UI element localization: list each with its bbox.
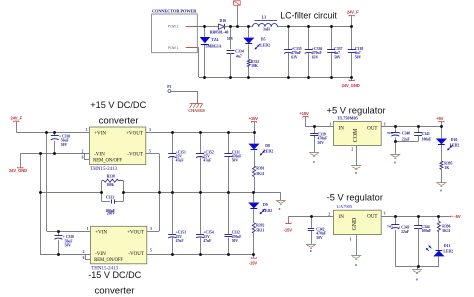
- svg-text:+5V: +5V: [436, 116, 443, 121]
- svg-text:10K: 10K: [251, 64, 258, 68]
- svg-text:1: 1: [350, 237, 352, 241]
- svg-text:63V: 63V: [291, 55, 298, 59]
- svg-text:5: 5: [149, 150, 151, 154]
- svg-text:D11: D11: [444, 244, 450, 248]
- svg-text:100k: 100k: [106, 183, 115, 187]
- svg-text:D5: D5: [261, 38, 266, 42]
- svg-text:POW 1: POW 1: [168, 46, 179, 50]
- svg-text:+VOUT: +VOUT: [126, 130, 144, 136]
- svg-text:+15V: +15V: [249, 116, 259, 121]
- svg-text:-VOUT: -VOUT: [127, 152, 144, 158]
- svg-text:+5 V regulator: +5 V regulator: [327, 104, 386, 115]
- svg-text:5K11: 5K11: [442, 229, 450, 233]
- svg-text:R395: R395: [444, 161, 452, 165]
- svg-text:24V_F: 24V_F: [10, 116, 22, 121]
- svg-text:2: 2: [351, 148, 353, 152]
- svg-text:-15V: -15V: [284, 227, 293, 232]
- svg-text:+VOUT: +VOUT: [127, 230, 145, 236]
- svg-text:1: 1: [87, 227, 89, 231]
- svg-text:-5V: -5V: [454, 214, 460, 219]
- svg-text:5K11: 5K11: [256, 172, 264, 176]
- svg-text:0: 0: [279, 207, 281, 211]
- svg-text:OUT: OUT: [367, 213, 378, 219]
- svg-text:L3: L3: [262, 16, 267, 20]
- svg-text:R330: R330: [107, 175, 115, 179]
- svg-text:+ C343: + C343: [398, 225, 409, 229]
- svg-text:R392: R392: [256, 223, 264, 227]
- svg-text:47uF: 47uF: [176, 239, 185, 243]
- svg-text:0: 0: [310, 249, 312, 253]
- svg-text:C334: C334: [235, 49, 244, 53]
- svg-text:+VIN: +VIN: [95, 230, 107, 236]
- svg-text:REM_ON/OFF: REM_ON/OFF: [94, 258, 123, 263]
- svg-text:D9: D9: [263, 203, 268, 207]
- svg-text:THN15-2413: THN15-2413: [90, 167, 117, 172]
- svg-text:0: 0: [394, 160, 396, 164]
- svg-text:LC-filter circuit: LC-filter circuit: [280, 11, 337, 21]
- svg-text:LED2: LED2: [450, 143, 460, 147]
- svg-text:100nF: 100nF: [422, 137, 433, 141]
- svg-text:50V: 50V: [318, 141, 325, 145]
- svg-text:0: 0: [355, 263, 357, 267]
- svg-text:-5 V regulator: -5 V regulator: [327, 193, 383, 203]
- svg-text:-VIN: -VIN: [94, 152, 105, 158]
- svg-text:TZ4: TZ4: [211, 38, 218, 42]
- svg-text:COM: COM: [353, 128, 359, 142]
- svg-text:50V: 50V: [316, 236, 323, 240]
- svg-text:UA7905: UA7905: [337, 204, 353, 209]
- svg-text:47uF: 47uF: [203, 239, 212, 243]
- svg-text:50V: 50V: [334, 55, 341, 59]
- svg-text:24V_GND: 24V_GND: [9, 168, 27, 173]
- svg-text:C333: C333: [106, 196, 114, 200]
- svg-text:63V: 63V: [312, 55, 319, 59]
- svg-text:OUT: OUT: [367, 125, 378, 131]
- svg-text:3: 3: [384, 123, 386, 127]
- svg-text:3: 3: [384, 212, 386, 216]
- svg-text:R391: R391: [256, 167, 264, 171]
- svg-text:22uF: 22uF: [402, 138, 411, 142]
- svg-text:5K11: 5K11: [256, 229, 264, 233]
- svg-text:0: 0: [355, 171, 357, 175]
- svg-text:3: 3: [150, 227, 152, 231]
- svg-text:2: 2: [328, 212, 330, 216]
- svg-text:50V: 50V: [61, 143, 68, 147]
- svg-text:D16: D16: [220, 19, 227, 23]
- svg-text:50V: 50V: [232, 239, 239, 243]
- svg-text:TL750M05: TL750M05: [337, 116, 358, 121]
- svg-text:LED2: LED2: [262, 209, 272, 213]
- svg-text:-VIN: -VIN: [95, 251, 106, 257]
- svg-text:-VOUT: -VOUT: [128, 251, 145, 257]
- svg-text:+15V: +15V: [299, 111, 309, 116]
- svg-text:IN: IN: [339, 125, 345, 131]
- svg-text:RB050L-40: RB050L-40: [210, 31, 229, 35]
- svg-text:1: 1: [86, 128, 88, 132]
- svg-text:3uH: 3uH: [263, 28, 270, 32]
- svg-text:1K: 1K: [445, 166, 450, 170]
- svg-text:50V: 50V: [65, 244, 72, 248]
- svg-text:6: 6: [83, 256, 85, 260]
- svg-text:R396: R396: [442, 224, 450, 228]
- svg-text:SMBG3A: SMBG3A: [206, 44, 222, 48]
- svg-text:2: 2: [82, 149, 84, 153]
- svg-text:D10: D10: [451, 138, 458, 142]
- svg-text:3: 3: [149, 128, 151, 132]
- svg-text:CONNECTOR POWER: CONNECTOR POWER: [152, 8, 197, 13]
- svg-text:GND: GND: [352, 218, 358, 231]
- svg-text:5: 5: [150, 249, 152, 253]
- svg-text:+ C340: + C340: [399, 131, 410, 135]
- svg-text:50V: 50V: [355, 55, 362, 59]
- svg-text:converter: converter: [95, 286, 136, 297]
- svg-text:0: 0: [416, 277, 418, 281]
- svg-text:-15 V DC/DC: -15 V DC/DC: [88, 270, 141, 280]
- svg-text:50V: 50V: [232, 159, 239, 163]
- svg-text:47uF: 47uF: [176, 159, 185, 163]
- svg-text:6: 6: [82, 155, 84, 159]
- svg-text:200V: 200V: [107, 212, 116, 216]
- svg-text:+VIN: +VIN: [94, 130, 106, 136]
- svg-text:LED2: LED2: [443, 249, 453, 253]
- svg-text:C341: C341: [422, 132, 430, 136]
- svg-text:100nF: 100nF: [421, 229, 432, 233]
- svg-text:4n7: 4n7: [236, 54, 242, 58]
- svg-text:2: 2: [83, 250, 85, 254]
- svg-text:POW 2: POW 2: [168, 25, 179, 29]
- svg-text:converter: converter: [99, 115, 140, 126]
- svg-text:P3: P3: [167, 85, 171, 89]
- svg-text:REM_ON/OFF: REM_ON/OFF: [93, 159, 122, 164]
- svg-text:47uF: 47uF: [203, 159, 212, 163]
- svg-text:22uF: 22uF: [401, 230, 410, 234]
- svg-text:1: 1: [329, 123, 331, 127]
- svg-text:+15 V DC/DC: +15 V DC/DC: [90, 100, 146, 110]
- svg-text:LED2: LED2: [263, 150, 273, 154]
- svg-text:0: 0: [440, 188, 442, 192]
- svg-text:24V_F: 24V_F: [347, 10, 359, 15]
- svg-text:LED2: LED2: [260, 43, 270, 47]
- svg-text:CHASSIS: CHASSIS: [188, 109, 205, 113]
- svg-text:D8: D8: [265, 144, 270, 148]
- svg-text:24V_GND: 24V_GND: [342, 83, 360, 88]
- svg-text:IN: IN: [339, 214, 345, 220]
- svg-text:-15V: -15V: [249, 261, 258, 266]
- svg-text:0: 0: [313, 160, 315, 164]
